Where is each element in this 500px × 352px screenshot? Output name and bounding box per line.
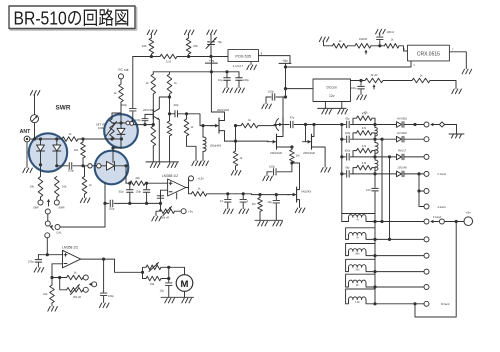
label U4 LM358 [162,174,178,178]
wire POS gnd stub [250,62,252,65]
wire r19 node [371,45,384,47]
wire bank row 3 from bus [342,156,346,158]
wire D4 top tap [112,153,114,163]
arrow c2 wiper [131,119,134,123]
wire R5 to ground [84,194,86,198]
wire R2 to SWR terminal [56,197,58,200]
wire R15 left [236,125,242,127]
ground choke [199,161,209,166]
svg-text:SWF: SWF [33,206,39,210]
wire anode bus B [389,157,391,240]
node FC tap [119,121,122,124]
inductor bank row3 80n [346,244,375,256]
label R4 10k [74,148,79,152]
svg-text:HVU202: HVU202 [397,131,407,135]
wire C11 left gnd [266,97,271,104]
wire D2 drop [56,139,58,145]
power +5v left [279,59,291,63]
node anode B top [388,155,391,158]
wire dccon in [286,88,314,90]
terminal +5v opamp1 [181,209,186,214]
capacitor C1 100p [69,163,72,170]
node U5 out [102,258,105,261]
wire R16 top [235,141,237,151]
node bus varcap [209,55,212,58]
wire row 1 mid [350,124,396,126]
resistor R4 10k [81,142,86,158]
wire bracket r5 [419,190,424,192]
label 47k note [363,111,368,115]
label 47k row 4 [362,161,367,165]
terminal out row2 [424,237,429,242]
label L1 100uH(H) [210,144,222,148]
wire to motor [169,267,185,274]
label C15 103 [366,188,371,192]
svg-text:10µ: 10µ [160,289,165,293]
svg-text:F band: F band [433,215,442,219]
resistor R5 1k [82,177,87,195]
node bank row2 bus [373,238,376,241]
wire R23 left [126,182,130,184]
title box BR-510 [9,6,137,30]
resistor R23 10k [130,181,145,186]
svg-text:CAL: CAL [56,231,62,235]
svg-text:103p: 103p [136,190,142,193]
wire motor vr branch [143,267,147,272]
svg-text:43K: 43K [142,44,147,48]
terminal out row3 [424,253,429,258]
label ANT [20,129,31,135]
wire Q1 collector [159,97,169,109]
wire Q5 source [312,147,326,167]
wire r11 top [169,72,171,74]
pot R30 motor [146,263,161,272]
node R12 top [152,123,155,126]
ground R24 [152,216,162,221]
wire osc out [294,124,345,126]
terminal R27 [83,275,88,280]
label SWR [56,105,71,112]
wire R14 bottom [187,136,197,161]
wire Q2 source [219,131,225,142]
capacitor C9 100u [236,72,243,88]
node anode A top [380,138,383,141]
node F 5v [455,220,458,223]
wire row3 out [404,156,424,158]
svg-text:100µ: 100µ [243,78,249,82]
wire dccon gnd2 [341,102,343,109]
wire U5 minus [52,263,63,265]
wire D4 out [115,165,127,167]
wire C11 right [276,96,283,98]
label HVU202 [397,131,407,135]
wire motor mid [168,267,170,282]
wire 47k left jog 1 [353,118,357,124]
svg-text:50n: 50n [356,269,361,272]
label C8 103p [173,104,179,107]
wire bus to POS [177,56,228,58]
node D3 bottom [120,137,123,140]
label R21 4k vR [371,73,378,77]
resistor bias 47k row 4 [357,165,373,170]
contact circle3 inner [97,164,101,168]
wire choke bus a [374,118,376,127]
wire R26 top [259,195,261,198]
capacitor bank row 4 [347,171,350,178]
label C23 103p [108,294,114,298]
ground vn 1 [258,221,268,226]
label C2 102p [109,206,115,210]
svg-text:10k: 10k [62,185,67,189]
svg-text:103p: 103p [268,90,274,94]
diode D2 [53,145,61,151]
ground above ANT line [30,91,40,96]
wire r10 bottom [152,94,154,110]
wire C8 left [170,113,176,115]
node C17 bot [145,202,148,205]
ground C22 [34,268,44,273]
wire C6 down [144,121,146,125]
resistor R1 10k [38,177,43,198]
label Q5 2SK19GR [303,151,315,155]
resistor R18 1k [333,44,348,49]
choke bus coil 2 [375,143,378,154]
node D1 top [39,137,42,140]
svg-text:80n: 80n [356,253,361,256]
label FC out [119,68,129,72]
switch contact b [45,221,50,226]
contact circle3 outer [88,164,92,168]
svg-text:1M: 1M [296,154,300,158]
wire R24 to conn [175,210,182,212]
svg-text:2SK19GR: 2SK19GR [217,108,229,112]
node 47k bus 3 [373,155,376,158]
svg-text:1.8n: 1.8n [355,301,360,304]
label POS pins [233,64,244,68]
choke bus coil 1 [375,128,377,137]
node C8 tap [168,112,171,115]
wire gate run [252,193,290,196]
svg-text:R band: R band [441,302,450,306]
node 5v dccon [284,87,287,90]
wire motor r branch [143,272,147,278]
node row1 out [413,123,416,126]
ground bar vn [255,219,283,221]
wire row 2 mid [350,138,396,140]
terminal F band 2 [439,219,444,224]
svg-text:HVU17: HVU17 [398,149,407,153]
wire main top bus [133,56,160,58]
svg-text:103p: 103p [173,104,179,107]
wire Q6 drain [292,163,300,190]
ground below R5 [80,198,90,203]
ground C9 [235,88,245,93]
svg-text:4t: 4t [357,219,359,222]
svg-text:10k: 10k [30,185,35,189]
label C20 1 [247,199,249,203]
label C band [438,172,447,176]
label R17 1M [296,154,300,158]
wire D1 bottom [40,151,42,177]
svg-text:102p: 102p [118,191,124,194]
ground R29 [48,307,58,312]
node cal cap [103,202,106,205]
node bank row 4 [340,172,343,175]
terminal +5v big [464,217,473,226]
label C14 100u [351,87,357,90]
node bank row3 bus [373,254,376,257]
capacitor C19 0.1 [225,194,232,209]
label R19 10kVR [359,37,367,41]
label C22 103p [28,259,34,263]
svg-text:LM358 1/2: LM358 1/2 [62,246,78,250]
svg-text:+5v: +5v [188,209,193,213]
svg-text:30k vR: 30k vR [73,295,81,299]
wire choke gnd [202,152,204,161]
ground vn 2 [273,221,283,226]
label Q6 VN10KX [301,190,312,194]
svg-text:103: 103 [366,188,371,192]
capacitor C18 [157,196,164,198]
svg-text:100×2: 100×2 [387,30,395,34]
node tr cap [378,44,381,47]
wire col83 top [82,139,84,142]
ground Q5 [321,168,331,173]
label R25 1k [198,187,201,191]
ground C19 [224,209,234,214]
capacitor C11 103p [272,94,275,101]
ground dccon 1 [322,109,332,114]
node motor b [167,277,170,280]
label R7 43K [142,44,147,48]
label C17 103p [136,190,142,193]
wire FC to R9 [120,79,122,84]
node bank row4 bus [373,270,376,273]
svg-text:VN10KX: VN10KX [301,190,312,194]
wire motor gnd [184,291,186,297]
svg-text:2SK19GR: 2SK19GR [303,151,315,155]
wire gnd net y203 [130,202,161,204]
terminal sel motor [92,282,97,287]
wire 9v rail down [211,63,224,118]
ground CRX [462,69,472,74]
svg-text:SWR: SWR [58,206,64,210]
node bus r43b [187,55,190,58]
wire R16 gnd [235,166,237,170]
terminal SWF [38,200,43,205]
wire to fetA gate [187,114,215,126]
wire D3 bottom [120,134,122,139]
label C11 103p [268,90,274,94]
wire R14 stub [186,114,188,119]
wire R17 top [291,147,293,150]
wire R15 to Q3 gate [258,125,277,127]
svg-text:HVU362: HVU362 [397,116,407,120]
IC U1 POS-535 [228,50,259,62]
terminal FC out [119,74,124,79]
node D4 out [124,164,127,167]
svg-text:2SC1906: 2SC1906 [143,108,154,112]
wire U4 power [176,193,178,199]
choke L1 100uH [203,137,206,152]
node bias bus c7 [225,70,228,73]
label 47k row 3 [362,144,367,148]
wire 47k right jog 2 [372,133,375,139]
node bank in [340,123,343,126]
wire C2 to opamp1 net [114,202,130,204]
pot R19 10kVR [355,44,371,55]
wire C12 right [277,163,292,172]
highlight circle around ANT bridge diodes [29,133,67,171]
label R29 10k [43,292,48,296]
capacitor C14 100u [358,86,365,89]
node band bracket [417,189,420,192]
trimmer cap CT1 [206,38,217,49]
wire contact d to cal cap [60,183,105,227]
wire bridge top [35,138,63,140]
svg-text:POS-535: POS-535 [235,54,251,58]
capacitor C17 103p [143,183,150,203]
wire 5v stem [285,63,287,97]
resistor R14 1k [184,119,189,136]
ground bar dccon [318,107,347,109]
wire switch out run [134,124,154,126]
varactor D5 HVU362 [397,122,404,128]
wire VR1 top [112,113,121,119]
wire F band [375,221,424,223]
wire r22 gnd [430,81,456,89]
terminal row3 [424,154,429,159]
wire bank bus [374,222,376,304]
label R8 43K [193,44,198,48]
label R31 33k [150,282,155,286]
label R15 1k [248,118,251,122]
svg-text:103p: 103p [269,164,275,168]
wire R7 to bus [150,54,152,57]
node d drain [312,123,315,126]
wire C12 gnd stub [266,172,268,176]
wire motor r out [161,278,169,280]
wire choke bus d [374,171,376,188]
label Q1 2SC1906 [143,108,154,112]
ground C23 [99,303,109,308]
svg-text:100p: 100p [68,169,74,173]
wire Q2 drain [219,118,225,120]
wire U5 out [81,258,115,260]
node bank row5 bus [373,285,376,288]
arrow CAL wiper [50,225,53,230]
node R17 bottom [290,161,293,164]
pot R24 30k vR [159,207,174,216]
resistor bias 47k row 1 [357,116,373,121]
wire 47k left jog 4 [353,168,357,174]
wire dccon gnd1 [324,102,326,109]
svg-text:30k vR: 30k vR [161,215,169,219]
ground row1 [449,134,464,138]
label C21 10u [267,200,272,204]
wire C14 stub [360,81,362,86]
wire R13 to gndbar [169,136,171,162]
wire R23 to opamp [145,182,167,184]
svg-text:103p: 103p [108,294,114,298]
node return [413,302,416,305]
node R23 right [145,182,148,185]
label R27 1k [74,270,77,274]
node 47k bus 1 [373,123,376,126]
transistor Q1 2SC1906 [153,109,159,120]
node R23 left [128,182,131,185]
capacitor C2 102p [110,200,113,207]
pot R28 30k vR [67,285,83,295]
node gate res left [234,124,237,127]
ground bar motor [161,296,194,298]
svg-text:820p: 820p [345,150,351,153]
capacitor C7 10u [224,72,231,88]
wire 47k left jog 2 [353,133,357,139]
wire minus col [51,264,53,285]
wire row1 out [404,124,424,126]
resistor bias 47k row 3 [357,148,373,153]
arrow sel motor [89,283,92,287]
wire fb top [52,277,67,279]
node bank row 2 [340,138,343,141]
svg-text:0.1: 0.1 [220,199,224,203]
svg-text:A band: A band [438,205,447,209]
ground C14 [357,95,367,100]
node anode A bot [380,220,383,223]
wire r11 bottom [169,94,171,121]
capacitor C13 100x2 [377,37,384,40]
svg-text:DCcon: DCcon [327,85,337,89]
label CRX pin7 [452,48,454,52]
wire C6 up [144,114,146,118]
svg-text:BR-510の回路図: BR-510の回路図 [14,7,130,29]
svg-text:10k: 10k [43,292,48,296]
label HVU17 [398,149,407,153]
terminal +13v [189,176,194,181]
resistor R13 [167,121,172,136]
wire contact to contact [92,165,96,167]
terminal out row4 [424,269,429,274]
terminal F band [424,219,429,224]
label Q4 2SK19GR [270,151,282,155]
node anode B bot [388,238,391,241]
terminal bracket r6 [424,204,429,209]
label C1 100p [68,169,74,173]
svg-text:10k: 10k [135,176,140,180]
resistor R16 1k [233,151,238,166]
node bank row 3 [340,155,343,158]
wire Q3 to Q4 cascode [282,132,284,136]
inductor bank row4 50n [346,259,375,271]
wire C24 gnd [168,286,170,297]
capacitor C21 10u [273,195,280,221]
wire out row3 [375,255,424,257]
svg-text:100k: 100k [98,126,104,130]
wire out row4 [375,271,424,273]
wire Q1 emitter [158,120,160,162]
ground below ANT [23,168,33,173]
label 47k row 2 [362,126,367,130]
node bus r43a [150,55,153,58]
label HVU362 [397,116,407,120]
wire R9 to node [120,102,122,123]
wire row2 out [404,138,424,140]
wire Q4 drain [277,136,284,138]
wire contact c down [46,238,48,255]
wire out row5 [375,286,424,288]
node gate a [258,193,261,196]
